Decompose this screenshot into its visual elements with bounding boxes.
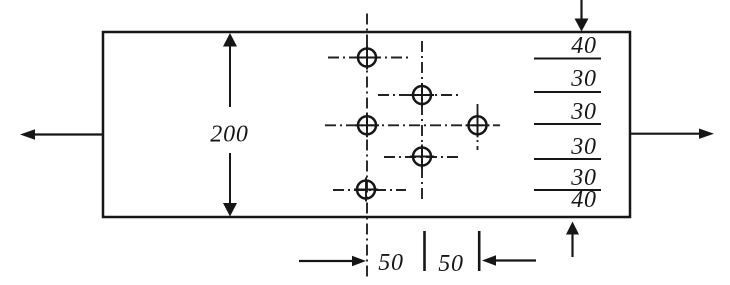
svg-text:40: 40 (571, 187, 597, 213)
svg-text:200: 200 (210, 122, 248, 148)
svg-text:30: 30 (570, 66, 597, 92)
svg-text:50: 50 (438, 251, 464, 277)
svg-text:40: 40 (571, 33, 597, 59)
svg-text:50: 50 (378, 250, 404, 276)
svg-text:30: 30 (570, 99, 597, 125)
svg-text:30: 30 (570, 134, 597, 160)
